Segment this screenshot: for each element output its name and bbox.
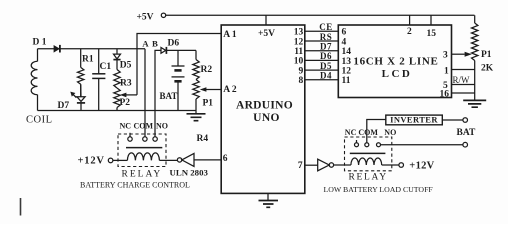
svg-text:C1: C1	[100, 62, 112, 72]
svg-text:NC: NC	[345, 128, 357, 137]
ground (LCD)	[463, 100, 486, 107]
svg-text:+12V: +12V	[78, 156, 105, 167]
svg-text:COM: COM	[358, 128, 378, 137]
battery BAT	[177, 50, 179, 65]
wire D6	[305, 59, 339, 61]
wire COM to inverter box	[367, 120, 386, 143]
wire relay1 coil to ULN	[159, 159, 177, 161]
svg-text:9: 9	[298, 66, 303, 76]
svg-text:COIL: COIL	[26, 114, 53, 125]
svg-text:16: 16	[440, 89, 450, 99]
svg-text:NO: NO	[384, 128, 396, 137]
wire inverter to relay2 coil	[334, 164, 351, 166]
svg-text:13: 13	[294, 28, 304, 38]
wire relay2 coil to +12V	[382, 164, 399, 166]
svg-text:D7: D7	[58, 101, 70, 111]
svg-text:4: 4	[342, 37, 347, 47]
relay2 coil	[351, 158, 382, 165]
block INVERTER	[386, 115, 443, 125]
svg-text:BAT: BAT	[160, 91, 178, 101]
relay2 NC contact	[356, 140, 358, 143]
relay2 core bar	[350, 152, 386, 154]
svg-text:1: 1	[444, 66, 449, 76]
wire RS	[305, 40, 339, 42]
svg-text:RS: RS	[320, 32, 333, 42]
potentiometer P1 2K	[474, 15, 476, 23]
svg-text:12: 12	[342, 67, 352, 77]
svg-text:CE: CE	[319, 22, 333, 32]
terminal (load)	[463, 142, 468, 147]
svg-text:D5: D5	[320, 61, 332, 71]
svg-text:P2: P2	[120, 98, 131, 108]
svg-text:7: 7	[298, 161, 303, 171]
svg-text:BATTERY CHARGE CONTROL: BATTERY CHARGE CONTROL	[80, 181, 190, 190]
wire A1 sense	[137, 34, 221, 95]
relay1 coil	[127, 153, 159, 161]
wire pin5 R/W	[452, 84, 475, 86]
relay2 COM contact	[365, 143, 369, 147]
wire bottom rail	[38, 110, 197, 112]
terminal +12V (right)	[399, 163, 404, 168]
relay1 NO contact	[153, 137, 157, 141]
svg-text:D6: D6	[320, 51, 332, 61]
svg-text:2K: 2K	[481, 63, 494, 73]
svg-text:6: 6	[342, 28, 347, 38]
inductor COIL	[31, 61, 37, 95]
preset P1 (battery divider)	[193, 80, 199, 100]
resistor R1	[80, 49, 82, 68]
relay1 NC contact	[129, 133, 131, 137]
wire pin7 to inverter	[305, 164, 318, 166]
diode D1	[54, 46, 59, 52]
svg-text:8: 8	[298, 76, 303, 86]
relay1 dashed box	[118, 134, 166, 167]
terminal +12V (left)	[108, 158, 113, 163]
relay1 core bar	[126, 147, 162, 149]
svg-text:3: 3	[443, 51, 448, 61]
svg-text:R/W: R/W	[453, 75, 471, 85]
svg-text:+5V: +5V	[137, 12, 154, 22]
ground (battery divider)	[187, 114, 206, 121]
wire top rail	[38, 48, 146, 50]
svg-text:LCD: LCD	[382, 68, 413, 80]
resistor R3	[116, 60, 118, 70]
svg-text:+12V: +12V	[409, 160, 434, 171]
wire +12V to relay1 coil	[113, 159, 128, 161]
wire NO to terminal	[381, 144, 463, 146]
svg-text:A 1: A 1	[223, 30, 237, 40]
svg-text:NO: NO	[156, 122, 168, 131]
svg-text:COM: COM	[134, 122, 154, 131]
svg-text:A: A	[142, 38, 149, 48]
capacitor C1	[98, 49, 100, 74]
wire LCD pin15 stub	[430, 15, 432, 25]
svg-text:B: B	[152, 38, 158, 48]
svg-text:R3: R3	[120, 78, 132, 88]
wire INVERTER to BAT terminal	[442, 119, 463, 121]
svg-text:D6: D6	[168, 39, 180, 49]
wire pin1	[452, 69, 475, 71]
preset P2	[114, 88, 120, 108]
relay2 NO contact	[377, 143, 381, 147]
wire pin16	[452, 92, 475, 94]
resistor R2	[195, 50, 197, 59]
svg-text:2: 2	[407, 27, 412, 37]
LED D7	[77, 97, 85, 102]
ground (Arduino)	[267, 193, 269, 200]
wire pin3 to P1 wiper	[452, 53, 465, 55]
svg-text:ARDUINO: ARDUINO	[236, 99, 293, 111]
svg-text:15: 15	[427, 29, 437, 39]
wire D7	[305, 50, 339, 52]
svg-text:6: 6	[223, 154, 228, 164]
svg-text:10: 10	[294, 57, 304, 67]
svg-text:+5V: +5V	[258, 29, 275, 39]
svg-text:P1: P1	[203, 98, 214, 108]
terminal BAT	[463, 118, 468, 123]
inverter (load cutoff)	[318, 159, 330, 171]
svg-text:P1: P1	[481, 50, 492, 60]
wire +5V tap to Arduino	[265, 15, 267, 25]
svg-text:NC: NC	[120, 122, 132, 131]
wire D4	[305, 79, 339, 81]
svg-text:R2: R2	[201, 65, 213, 75]
zener D5	[116, 49, 118, 54]
svg-text:LOW BATTERY LOAD CUTOFF: LOW BATTERY LOAD CUTOFF	[324, 185, 434, 194]
svg-text:A 2: A 2	[223, 85, 237, 95]
svg-text:ULN 2803: ULN 2803	[170, 168, 209, 178]
diode D6	[161, 48, 166, 54]
svg-text:BAT: BAT	[457, 128, 476, 138]
svg-text:16CH X 2 LINE: 16CH X 2 LINE	[353, 56, 438, 68]
svg-text:11: 11	[342, 76, 351, 86]
inverter ULN2803	[177, 158, 181, 162]
relay2 dashed box	[345, 137, 392, 171]
LCD box	[338, 25, 451, 98]
svg-text:INVERTER: INVERTER	[390, 115, 438, 125]
svg-text:12: 12	[294, 37, 304, 47]
wire CE	[305, 30, 339, 32]
relay1 COM contact	[143, 137, 147, 141]
svg-text:D 1: D 1	[33, 37, 47, 47]
wire +5V rail	[166, 14, 475, 16]
svg-text:D7: D7	[320, 42, 332, 52]
svg-text:D5: D5	[120, 60, 132, 70]
svg-text:RELAY: RELAY	[349, 173, 388, 183]
svg-text:UNO: UNO	[253, 112, 280, 124]
Arduino UNO box	[221, 25, 305, 193]
svg-text:R1: R1	[82, 55, 94, 65]
svg-text:R4: R4	[197, 134, 209, 144]
wire ULN to pin6	[194, 159, 221, 161]
wire D5	[305, 69, 339, 71]
svg-text:14: 14	[342, 47, 352, 57]
cursor mark	[20, 198, 22, 216]
svg-text:D4: D4	[320, 71, 332, 81]
svg-text:RELAY: RELAY	[122, 170, 163, 180]
wire LCD pin2 stub	[409, 15, 411, 25]
svg-text:11: 11	[294, 47, 303, 57]
node +5V supply terminal	[161, 13, 165, 17]
svg-text:13: 13	[342, 57, 352, 67]
